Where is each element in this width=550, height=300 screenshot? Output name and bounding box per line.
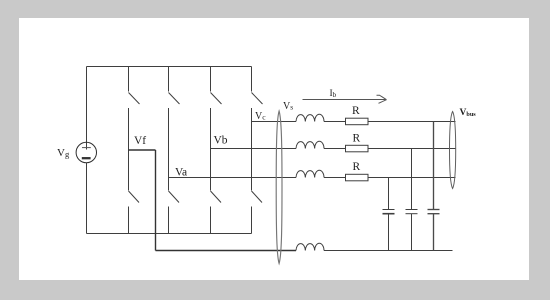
- switch S4 upper leg4: [252, 67, 263, 122]
- svg-text:R: R: [353, 133, 361, 145]
- svg-text:Vs: Vs: [283, 101, 293, 112]
- inductor L4 neutral: [296, 243, 324, 250]
- capacitor C2: [406, 149, 418, 251]
- wire Vg bottom lead: [86, 163, 88, 234]
- svg-text:R: R: [352, 105, 360, 117]
- label Vs: [283, 101, 293, 112]
- capacitor C3: [428, 122, 440, 251]
- bus ellipse right: [450, 112, 456, 189]
- switch S3 upper leg3: [211, 67, 222, 149]
- svg-text:R: R: [353, 161, 361, 173]
- svg-text:Vc: Vc: [255, 111, 266, 122]
- label Ib: [330, 89, 337, 99]
- current arrow Ib: [303, 95, 387, 103]
- inductor L2 phase b: [296, 141, 324, 148]
- wire Vg top lead: [86, 67, 88, 150]
- wire row a after resistor: [368, 177, 456, 179]
- resistor R phase a: [346, 174, 369, 181]
- label Vbus: [460, 108, 477, 118]
- resistor R phase b: [346, 145, 369, 152]
- wire row c to resistor: [324, 121, 346, 123]
- switch S5 lower leg1: [129, 150, 140, 234]
- label R phase a: [353, 161, 361, 173]
- voltage source Vg: [76, 142, 96, 162]
- label R phase c: [352, 105, 360, 117]
- switch S7 lower leg3: [211, 149, 222, 234]
- switch S2 upper leg2: [169, 67, 180, 178]
- wire row b after resistor: [368, 148, 456, 150]
- svg-text:Vb: Vb: [214, 135, 228, 147]
- switch S8 lower leg4: [252, 122, 263, 234]
- wire bottom DC bus: [87, 233, 252, 235]
- node Vb wire: [211, 148, 297, 150]
- machine winding ellipse left: [276, 111, 282, 264]
- svg-text:Vf: Vf: [134, 135, 146, 147]
- wire top DC bus: [87, 66, 252, 68]
- resistor R phase c: [346, 118, 369, 125]
- inductor L3 phase a: [296, 170, 324, 177]
- label Vc: [255, 111, 266, 122]
- capacitor C1: [383, 178, 395, 251]
- svg-text:Ib: Ib: [330, 89, 337, 99]
- label Vb: [214, 135, 228, 147]
- label Vf: [134, 135, 146, 147]
- node Vf wire: [129, 150, 297, 251]
- switch S6 lower leg2: [169, 178, 180, 234]
- svg-text:Vg: Vg: [57, 147, 70, 159]
- wire row c after resistor: [368, 121, 456, 123]
- switch S1 upper leg1: [129, 67, 140, 151]
- svg-text:Va: Va: [175, 167, 187, 179]
- wire row a to resistor: [324, 177, 346, 179]
- node Vc wire: [252, 121, 297, 123]
- label R phase b: [353, 133, 361, 145]
- node Va wire: [169, 177, 297, 179]
- wire neutral row: [324, 250, 453, 252]
- label Va: [175, 167, 187, 179]
- inductor L1 phase c: [296, 114, 324, 121]
- label Vg: [57, 147, 70, 159]
- wire row b to resistor: [324, 148, 346, 150]
